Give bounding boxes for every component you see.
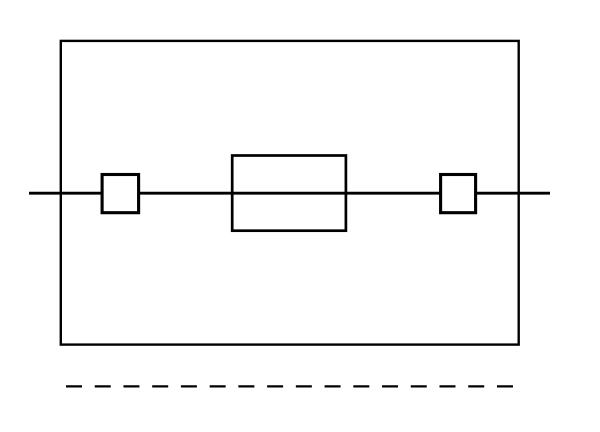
wire (through conductor) [29, 192, 550, 195]
fuse F1 [232, 156, 346, 231]
left clamp contact [102, 175, 139, 213]
terminal block body outline [61, 41, 519, 345]
mounting rail (dashed line) [66, 385, 513, 387]
right clamp contact [441, 175, 476, 213]
